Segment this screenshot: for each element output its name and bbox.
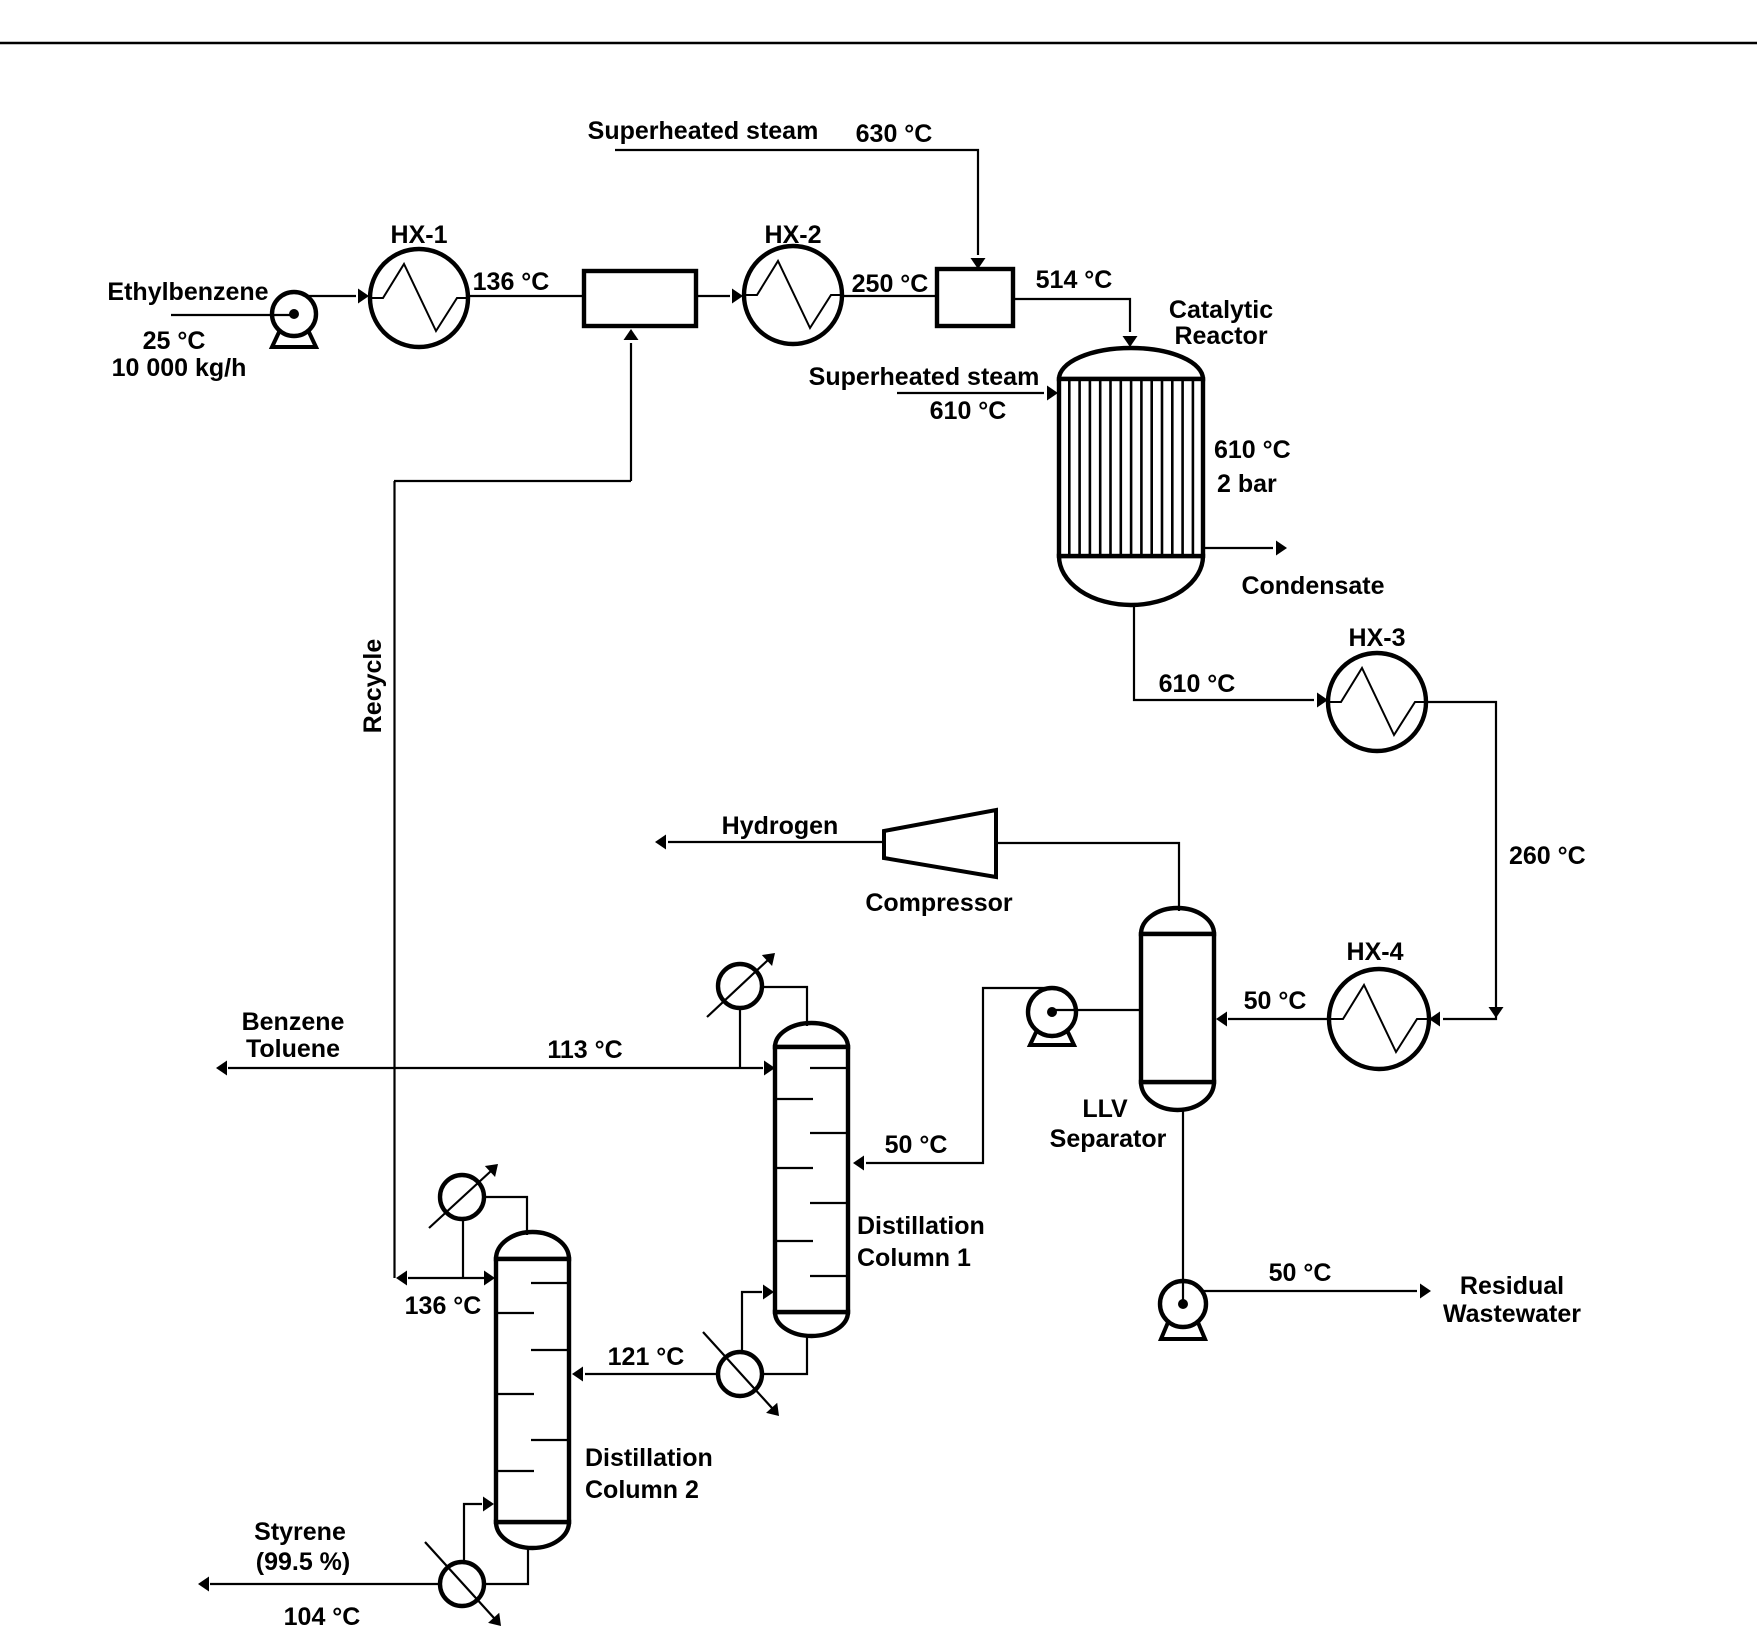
pump P-1 (272, 292, 316, 347)
wire: recycle horizontal run (394, 480, 631, 482)
pump P-3 (1160, 1281, 1206, 1339)
svg-text:Superheated steam: Superheated steam (588, 117, 819, 145)
distillation column 1 (775, 1023, 848, 1336)
svg-text:Reactor: Reactor (1174, 322, 1267, 350)
wire: separator overhead to compressor (998, 843, 1179, 911)
svg-text:Styrene: Styrene (254, 1518, 346, 1546)
svg-text:630 °C: 630 °C (856, 120, 933, 148)
svg-text:Superheated steam: Superheated steam (809, 363, 1040, 391)
label Styrene (99.5 %) (254, 1518, 350, 1576)
catalytic reactor R-1 (1059, 348, 1203, 605)
svg-text:2 bar: 2 bar (1217, 470, 1277, 498)
reboiler of column 1 (703, 1332, 785, 1421)
wire: column 2 bottoms to reboiler (486, 1548, 528, 1584)
svg-text:Residual: Residual (1460, 1272, 1564, 1300)
label Distillation Column 2 (585, 1444, 713, 1504)
svg-text:Condensate: Condensate (1241, 572, 1384, 600)
wire: benzene/toluene product (113 C) (216, 1061, 775, 1076)
label Residual Wastewater (1443, 1272, 1581, 1328)
condenser of column 2 (429, 1159, 503, 1228)
svg-text:Hydrogen: Hydrogen (722, 812, 839, 840)
svg-text:Compressor: Compressor (865, 889, 1013, 917)
svg-text:Catalytic: Catalytic (1169, 296, 1273, 324)
wire: 121 C feed to column 2 (572, 1367, 718, 1382)
wire: reboiler 2 vapour return (464, 1497, 494, 1563)
svg-text:25 °C: 25 °C (143, 327, 206, 355)
heat exchanger HX-2 (744, 246, 842, 344)
wire: styrene product (104 C) (198, 1577, 440, 1592)
svg-text:610 °C: 610 °C (930, 397, 1007, 425)
wire: 610 C steam to reactor (897, 386, 1058, 401)
wire: wastewater product (50 C) (1202, 1284, 1431, 1299)
svg-text:Ethylbenzene: Ethylbenzene (107, 278, 268, 306)
svg-text:50 °C: 50 °C (885, 1131, 948, 1159)
wire: condenser 2 downcomer (462, 1219, 464, 1278)
wire: separator to pump P-2 (1076, 1009, 1141, 1011)
svg-text:HX-3: HX-3 (1349, 624, 1406, 652)
LLV separator (1141, 908, 1214, 1110)
wire: pump P-2 to column 1 (50 C) (853, 988, 1048, 1171)
svg-text:HX-4: HX-4 (1347, 938, 1404, 966)
pump P-2 (1028, 988, 1076, 1045)
wire: reboiler 1 vapour return (742, 1285, 774, 1353)
svg-text:104 °C: 104 °C (284, 1603, 361, 1631)
svg-text:Toluene: Toluene (246, 1035, 340, 1063)
svg-text:50 °C: 50 °C (1269, 1259, 1332, 1287)
label 610 C 2 bar (1214, 436, 1291, 498)
wire: mixer to HX-2 (696, 289, 743, 304)
svg-text:50 °C: 50 °C (1244, 987, 1307, 1015)
heat exchanger HX-1 (370, 249, 468, 347)
label LLV Separator (1050, 1095, 1167, 1153)
svg-text:10 000 kg/h: 10 000 kg/h (112, 354, 247, 382)
svg-text:136 °C: 136 °C (473, 268, 550, 296)
wire: 630 C steam supply (615, 150, 986, 269)
svg-text:(99.5 %): (99.5 %) (256, 1548, 350, 1576)
distillation column 2 (496, 1232, 569, 1548)
label Catalytic Reactor (1169, 296, 1273, 350)
svg-text:HX-1: HX-1 (391, 221, 448, 249)
svg-text:610 °C: 610 °C (1159, 670, 1236, 698)
heat exchanger HX-3 (1328, 653, 1426, 751)
wire: 136 C reflux/recycle split (396, 1271, 495, 1286)
wire: HX-3 to HX-4 (1426, 702, 1504, 1027)
label Distillation Column 1 (857, 1212, 985, 1272)
svg-text:HX-2: HX-2 (765, 221, 822, 249)
wire: HX-1 to mixer (468, 295, 584, 297)
wire: recycle riser into mixer (624, 329, 639, 481)
svg-text:Distillation: Distillation (585, 1444, 713, 1472)
svg-text:136 °C: 136 °C (405, 1292, 482, 1320)
wire: ethylbenzene feed (171, 314, 274, 316)
svg-text:LLV: LLV (1082, 1095, 1128, 1123)
svg-text:Separator: Separator (1050, 1125, 1167, 1153)
wire: separator bottoms to pump P-3 (1182, 1110, 1184, 1300)
svg-text:Column 2: Column 2 (585, 1476, 699, 1504)
heat exchanger HX-4 (1329, 969, 1429, 1069)
svg-text:Benzene: Benzene (242, 1008, 345, 1036)
wire: condensate outlet (1203, 541, 1287, 556)
svg-text:121 °C: 121 °C (608, 1343, 685, 1371)
wire: recycle vertical run (393, 481, 395, 1278)
wire: pump P-1 to HX-1 (305, 289, 369, 304)
wire: reactor bottom to HX-3 (1134, 604, 1328, 708)
compressor K-1 (884, 810, 996, 877)
mixer box (584, 271, 696, 326)
wire: column 1 overhead to condenser (762, 987, 807, 1026)
wire: HX-4 to separator (1216, 1012, 1329, 1027)
wire: HX-2 to steam box (842, 295, 937, 297)
svg-text:514 °C: 514 °C (1036, 266, 1113, 294)
svg-text:260 °C: 260 °C (1509, 842, 1586, 870)
wire: column 2 overhead to condenser (484, 1197, 527, 1235)
wire: steam box to reactor (1013, 299, 1138, 347)
wire: hydrogen product (655, 835, 884, 850)
top rule (0, 42, 1757, 44)
reboiler of column 2 (425, 1542, 507, 1631)
wire: column 1 bottoms to reboiler (764, 1336, 807, 1374)
svg-text:Wastewater: Wastewater (1443, 1300, 1581, 1328)
condenser of column 1 (707, 948, 780, 1017)
label Benzene Toluene (242, 1008, 345, 1063)
svg-text:Distillation: Distillation (857, 1212, 985, 1240)
svg-text:250 °C: 250 °C (852, 270, 929, 298)
steam mixer box (937, 269, 1013, 326)
svg-text:Column 1: Column 1 (857, 1244, 971, 1272)
wire: condenser 1 downcomer (739, 1008, 741, 1068)
svg-text:113 °C: 113 °C (547, 1036, 622, 1064)
svg-text:610 °C: 610 °C (1214, 436, 1291, 464)
svg-text:Recycle: Recycle (359, 639, 387, 734)
